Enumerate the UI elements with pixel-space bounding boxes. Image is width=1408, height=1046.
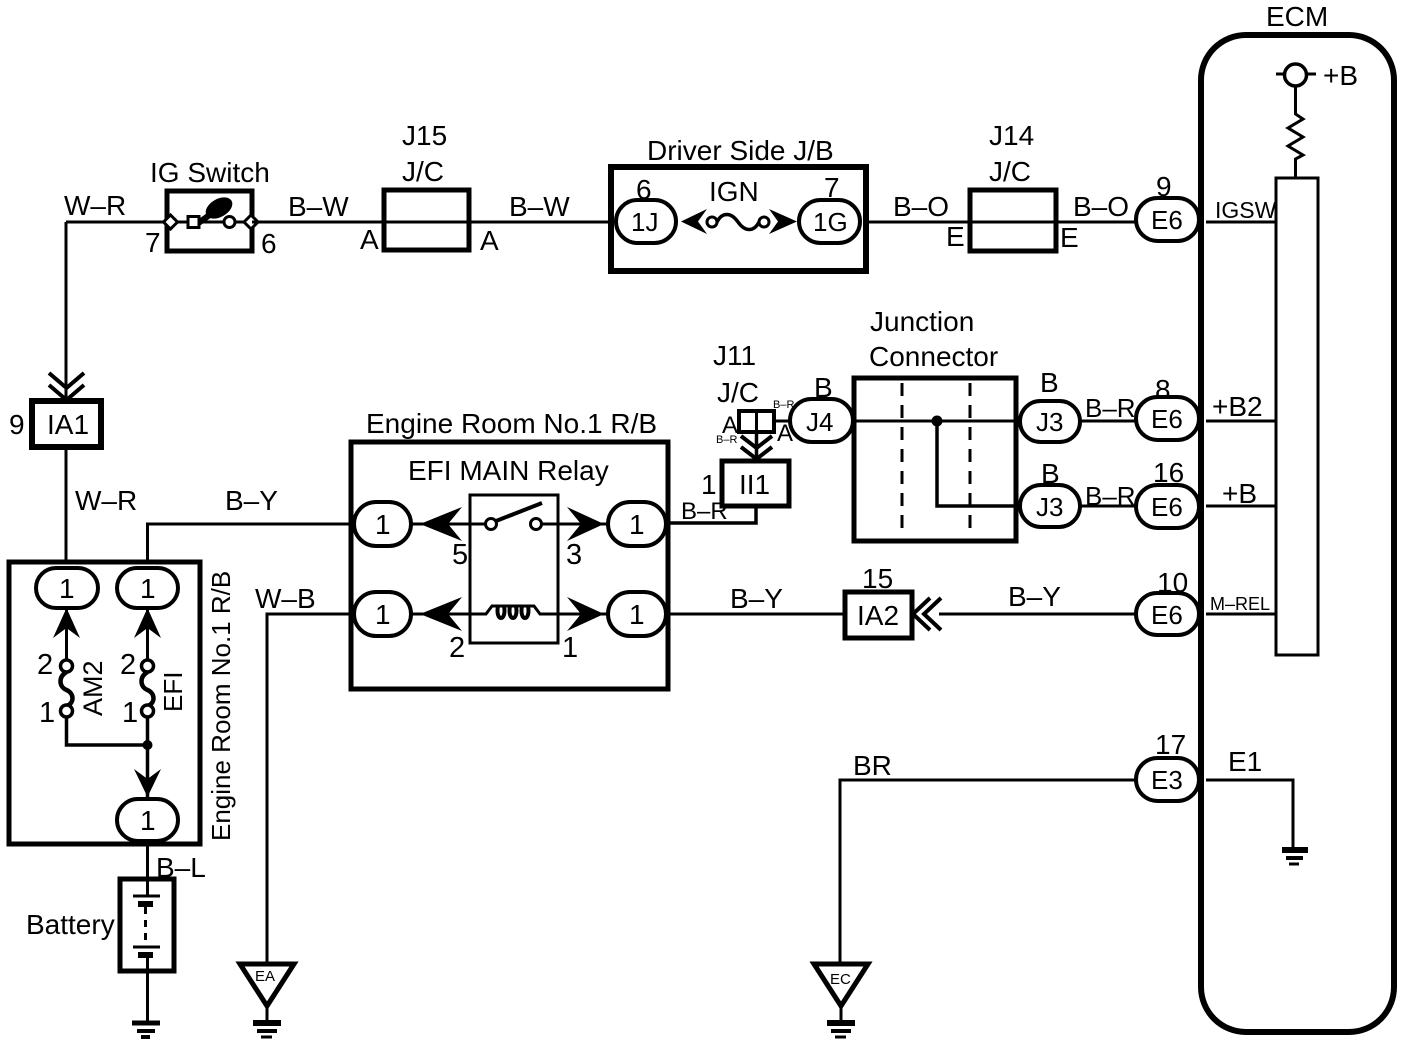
svg-text:9: 9 xyxy=(9,409,25,440)
wire W-R 2 xyxy=(66,447,137,568)
svg-text:Junction: Junction xyxy=(870,306,974,337)
wire from J11 to J4 xyxy=(774,420,790,423)
svg-text:B–R: B–R xyxy=(716,434,737,446)
svg-text:II1: II1 xyxy=(739,469,770,500)
wire B-Y to E6 pin 10 xyxy=(939,581,1140,614)
svg-text:IGSW: IGSW xyxy=(1215,197,1277,223)
svg-text:Connector: Connector xyxy=(869,341,998,372)
Driver Side J/B xyxy=(611,135,866,271)
connector IA1 pin 9 xyxy=(9,401,101,447)
relay switch contacts pins 5 and 3 xyxy=(411,503,608,571)
junction connector J15 J/C xyxy=(360,120,499,256)
svg-text:EA: EA xyxy=(255,968,275,985)
svg-text:+B: +B xyxy=(1222,478,1257,509)
svg-text:1: 1 xyxy=(122,697,138,729)
svg-text:IGN: IGN xyxy=(709,176,759,207)
svg-text:B–R: B–R xyxy=(1085,481,1136,511)
connector E6 pin 10 xyxy=(1136,567,1199,635)
ECM internal bus bar xyxy=(1276,178,1318,655)
svg-text:1: 1 xyxy=(562,632,578,664)
svg-text:A: A xyxy=(480,225,499,256)
chevron arrow into II1 xyxy=(741,412,772,461)
svg-text:2: 2 xyxy=(449,632,465,664)
ground below battery xyxy=(132,1023,160,1037)
svg-text:B–Y: B–Y xyxy=(1008,581,1061,612)
wire B-O xyxy=(866,191,970,222)
fuse AM2 xyxy=(37,649,108,729)
relay connector 1 bottom-right xyxy=(608,592,666,636)
svg-text:ECM: ECM xyxy=(1266,1,1328,32)
svg-text:EC: EC xyxy=(830,971,851,988)
connector II1 xyxy=(722,461,789,506)
wires inside junction connector xyxy=(853,416,1020,507)
svg-text:6: 6 xyxy=(261,228,277,259)
connector 1G xyxy=(799,200,860,243)
svg-text:W–R: W–R xyxy=(75,485,137,516)
svg-text:7: 7 xyxy=(145,227,161,258)
wire B-R to E6 pin 8 xyxy=(1080,393,1140,423)
connector 1 EFI top xyxy=(117,568,178,608)
relay connector 1 top-left xyxy=(354,502,411,546)
ground triangle EC xyxy=(814,964,868,1037)
svg-text:J/C: J/C xyxy=(989,156,1031,187)
junction connector J11 J/C xyxy=(713,340,794,447)
svg-text:17: 17 xyxy=(1155,729,1186,760)
ground triangle EA xyxy=(240,964,294,1037)
wire B-W xyxy=(252,191,384,222)
fuse EFI xyxy=(120,649,188,729)
chevron arrow at IA2 xyxy=(913,598,941,630)
svg-text:B–R: B–R xyxy=(1085,393,1136,423)
connector E6 pin 8 xyxy=(1136,374,1199,440)
svg-text:Engine Room No.1 R/B: Engine Room No.1 R/B xyxy=(206,571,236,841)
arrow up EFI xyxy=(134,608,161,666)
chevron arrow into IA1 xyxy=(49,373,84,400)
svg-text:E6: E6 xyxy=(1151,205,1183,235)
svg-text:1: 1 xyxy=(629,509,645,540)
svg-text:IA2: IA2 xyxy=(857,600,899,631)
svg-text:B–W: B–W xyxy=(288,191,349,222)
svg-text:M–REL: M–REL xyxy=(1210,594,1270,614)
ECM box xyxy=(1201,1,1394,1032)
svg-text:Engine Room No.1 R/B: Engine Room No.1 R/B xyxy=(366,408,657,439)
svg-text:1J: 1J xyxy=(631,207,658,237)
svg-text:1: 1 xyxy=(59,573,75,604)
wire B-Y from EFI fuse to relay xyxy=(148,485,356,567)
svg-text:15: 15 xyxy=(862,563,893,594)
svg-text:B–Y: B–Y xyxy=(730,583,783,614)
svg-text:J3: J3 xyxy=(1036,407,1063,437)
svg-text:EFI: EFI xyxy=(158,672,188,712)
svg-text:E6: E6 xyxy=(1151,600,1183,630)
relay coil pins 2 and 1 xyxy=(411,597,608,664)
wire IGSW inside ECM xyxy=(1206,197,1277,223)
wire +B inside ECM xyxy=(1206,478,1276,509)
battery xyxy=(26,879,174,1021)
svg-text:J15: J15 xyxy=(402,120,447,151)
fusible link arrows and wave IGN xyxy=(681,209,707,234)
svg-text:E6: E6 xyxy=(1151,492,1183,522)
svg-text:BR: BR xyxy=(853,750,892,781)
connector J4 xyxy=(790,372,853,442)
connector J3 lower xyxy=(1020,458,1080,527)
svg-text:+B: +B xyxy=(1323,60,1358,91)
wire B-R from relay to II1 xyxy=(668,469,756,525)
connector E3 pin 17 xyxy=(1136,729,1199,801)
svg-text:1: 1 xyxy=(39,697,55,729)
Engine Room No.1 R/B fuse box xyxy=(9,562,236,844)
svg-text:J14: J14 xyxy=(989,120,1034,151)
+B terminal inside ECM xyxy=(1276,60,1358,91)
relay connector 1 bottom-left xyxy=(354,592,411,636)
svg-text:1: 1 xyxy=(375,509,391,540)
wire B-L xyxy=(148,841,206,883)
svg-text:B: B xyxy=(1040,367,1059,398)
svg-text:B–O: B–O xyxy=(1073,191,1129,222)
wire E1 inside ECM to ground xyxy=(1206,746,1308,864)
svg-text:1: 1 xyxy=(701,469,717,500)
svg-text:2: 2 xyxy=(120,649,136,681)
svg-text:J4: J4 xyxy=(806,407,833,437)
svg-text:J/C: J/C xyxy=(402,156,444,187)
svg-text:J3: J3 xyxy=(1036,492,1063,522)
Junction Connector box xyxy=(854,306,1016,541)
svg-text:1: 1 xyxy=(140,573,156,604)
svg-text:B–W: B–W xyxy=(509,191,570,222)
svg-text:IG Switch: IG Switch xyxy=(150,157,270,188)
svg-text:Battery: Battery xyxy=(26,909,115,940)
svg-text:W–R: W–R xyxy=(64,190,126,221)
svg-text:+B2: +B2 xyxy=(1212,391,1263,422)
connector E6 pin 9 xyxy=(1136,171,1199,241)
connector J3 upper xyxy=(1020,367,1080,442)
svg-text:1: 1 xyxy=(140,805,156,836)
wire B-Y from relay to IA2 xyxy=(668,583,845,614)
svg-text:B–Y: B–Y xyxy=(225,485,278,516)
connector 1 bottom xyxy=(117,799,178,841)
svg-text:B–O: B–O xyxy=(893,191,949,222)
connector IA2 pin 15 xyxy=(845,563,912,638)
wire M-REL inside ECM xyxy=(1206,594,1276,614)
wire BR to EC ground xyxy=(840,750,1140,962)
svg-text:E: E xyxy=(946,221,965,252)
wire W-R from IG switch left xyxy=(64,190,167,401)
resistor inside ECM xyxy=(1288,86,1303,178)
svg-text:A: A xyxy=(360,224,379,255)
Engine Room No.1 R/B relay box xyxy=(351,408,668,689)
svg-text:J11: J11 xyxy=(713,340,756,371)
connector E6 pin 16 xyxy=(1136,457,1199,528)
svg-text:2: 2 xyxy=(37,649,53,681)
svg-text:1: 1 xyxy=(629,599,645,630)
wire joining fuse bottoms xyxy=(67,717,153,799)
svg-text:IA1: IA1 xyxy=(47,409,89,440)
wire W-B from relay to EA ground xyxy=(255,583,355,962)
svg-text:1G: 1G xyxy=(813,207,848,237)
svg-text:EFI MAIN Relay: EFI MAIN Relay xyxy=(408,455,609,486)
svg-text:Driver Side J/B: Driver Side J/B xyxy=(647,135,834,166)
svg-text:E: E xyxy=(1060,222,1079,253)
svg-text:E6: E6 xyxy=(1151,404,1183,434)
EFI MAIN relay inner box xyxy=(470,495,558,643)
wire +B2 inside ECM xyxy=(1206,391,1276,422)
wire B-W 2 xyxy=(469,191,611,222)
wire B-R to E6 pin 16 xyxy=(1080,481,1140,511)
svg-text:AM2: AM2 xyxy=(78,660,108,716)
svg-text:5: 5 xyxy=(452,539,468,571)
junction connector J14 J/C xyxy=(946,120,1079,253)
wire B-O 2 xyxy=(1056,191,1140,222)
arrow up AM2 xyxy=(53,608,80,666)
connector 1J xyxy=(616,200,676,243)
svg-text:W–B: W–B xyxy=(255,583,316,614)
IG Switch SW1 xyxy=(145,157,277,259)
svg-text:3: 3 xyxy=(566,539,582,571)
svg-text:E1: E1 xyxy=(1228,746,1262,777)
svg-text:E3: E3 xyxy=(1151,765,1183,795)
relay connector 1 top-right xyxy=(608,502,666,546)
arrow down to battery connector xyxy=(134,769,161,797)
svg-text:J/C: J/C xyxy=(717,377,759,408)
svg-text:1: 1 xyxy=(375,599,391,630)
connector 1 AM2 top xyxy=(36,568,98,608)
